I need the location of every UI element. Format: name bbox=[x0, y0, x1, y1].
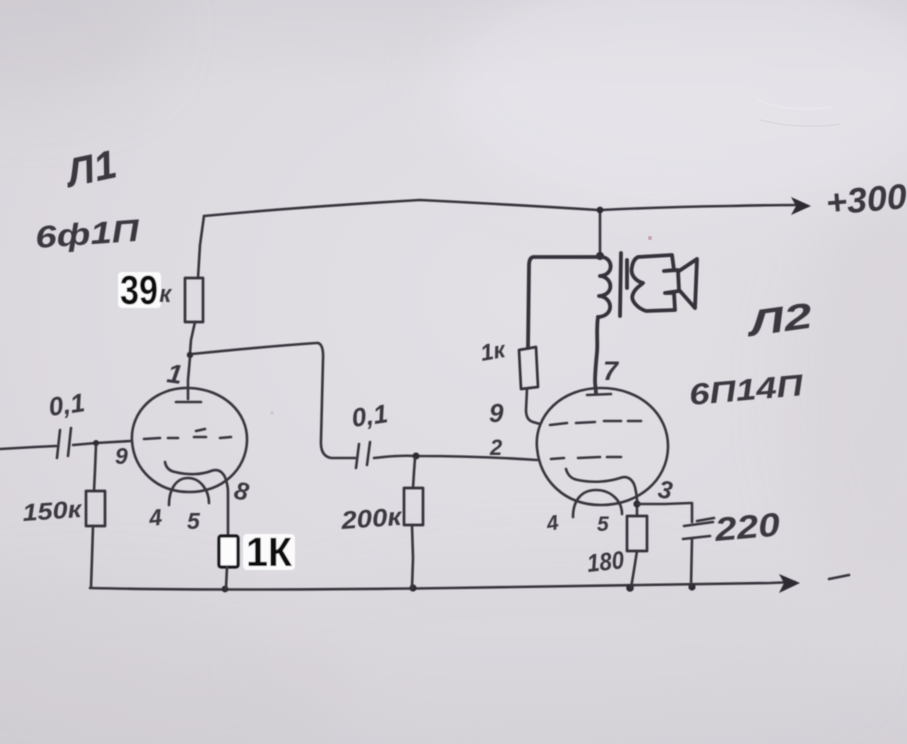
svg-text:4: 4 bbox=[147, 504, 164, 531]
svg-text:0,1: 0,1 bbox=[47, 387, 87, 422]
svg-text:5: 5 bbox=[597, 513, 609, 536]
svg-text:5: 5 bbox=[187, 508, 201, 534]
svg-text:к: к bbox=[159, 281, 173, 308]
svg-text:200к: 200к bbox=[339, 503, 403, 535]
svg-text:2: 2 bbox=[489, 435, 503, 460]
svg-text:9: 9 bbox=[489, 398, 504, 428]
svg-text:9: 9 bbox=[115, 443, 128, 469]
svg-text:39: 39 bbox=[120, 267, 158, 313]
svg-text:150к: 150к bbox=[22, 496, 85, 527]
svg-text:+300: +300 bbox=[824, 177, 907, 223]
svg-text:7: 7 bbox=[603, 356, 620, 386]
svg-text:1К: 1К bbox=[246, 529, 293, 575]
svg-text:6ф1П: 6ф1П bbox=[34, 213, 141, 255]
svg-text:220: 220 bbox=[712, 505, 782, 548]
svg-text:180: 180 bbox=[586, 546, 626, 578]
svg-text:0,1: 0,1 bbox=[350, 398, 390, 433]
